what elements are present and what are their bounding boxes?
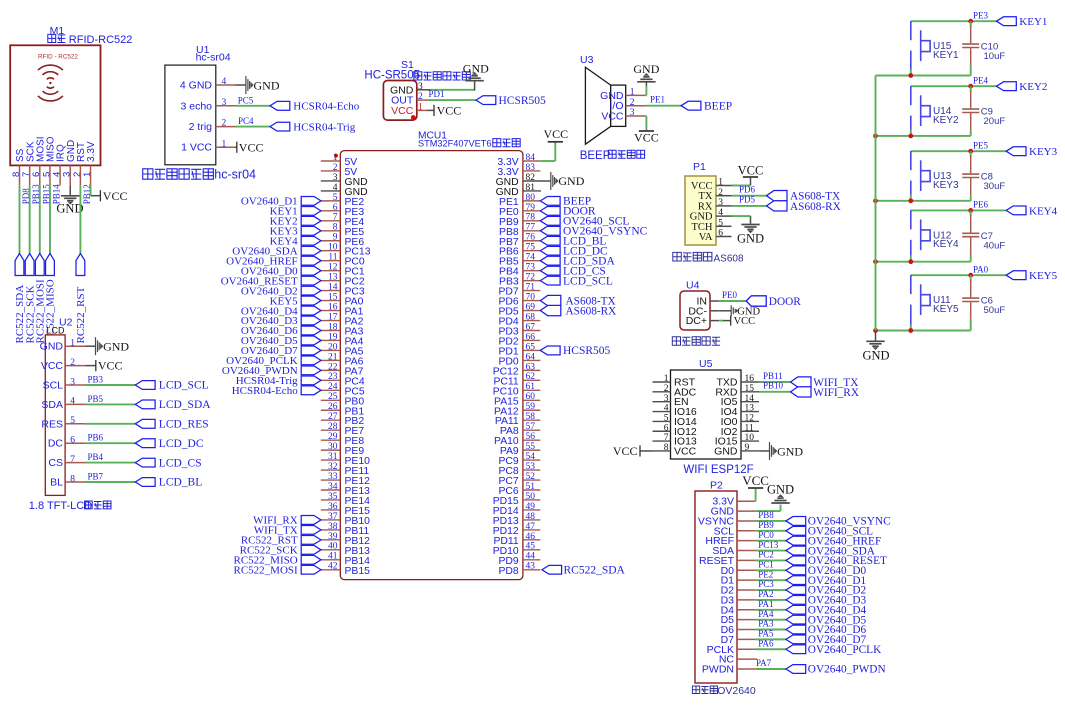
U2 caption (CJK) 1.8 TFT-LCD: [29, 500, 111, 512]
wire P2 D4 to OV2640_D4: [756, 609, 786, 611]
svg-text:GND: GND: [254, 78, 280, 92]
svg-text:8: 8: [664, 443, 669, 453]
M1 pin 3 GND: [62, 140, 77, 186]
net flag HCSR04-Trig (MCU1 pin 23): [236, 375, 321, 387]
switch U14 KEY2: [911, 86, 959, 130]
wire U4 DC- to ground: [719, 310, 731, 312]
module M1 RFID-RC522: [10, 45, 100, 165]
svg-text:3 echo: 3 echo: [180, 100, 212, 112]
net flag OV2640_D1 (MCU1 pin 5): [241, 196, 321, 208]
svg-text:PC13: PC13: [758, 540, 779, 550]
svg-text:61: 61: [526, 382, 536, 392]
junction rail KEY2: [873, 134, 878, 139]
M1 pin 6 MOSI: [31, 136, 46, 185]
net flag WIFI_TX (MCU1 pin 38): [254, 525, 321, 537]
switch U13 KEY3: [911, 151, 959, 195]
MCU1 pin 61 PC10: [493, 382, 541, 397]
net flag KEY2 (MCU1 pin 7): [270, 216, 321, 228]
svg-text:30: 30: [328, 442, 338, 452]
svg-text:RC522_MOSI: RC522_MOSI: [234, 564, 299, 576]
svg-text:55: 55: [526, 442, 536, 452]
svg-text:KEY4: KEY4: [933, 239, 959, 250]
MCU1 pin 27 PB2: [321, 412, 365, 427]
svg-text:6: 6: [664, 423, 669, 433]
wire P2 D6 to OV2640_D6: [756, 629, 786, 631]
wire U4 IN to DOOR: [719, 300, 746, 302]
net label PA0: [973, 265, 989, 275]
wire U2 DC to LCD_DC: [86, 442, 136, 444]
svg-text:30uF: 30uF: [984, 181, 1006, 192]
switch U15 KEY1: [911, 21, 959, 70]
U5 pin 5 IO14: [653, 414, 697, 428]
net label PE3: [973, 11, 989, 21]
MCU1 pin 32 PE11: [321, 462, 370, 477]
svg-text:64: 64: [526, 352, 536, 362]
M1 pin 1 3.3V: [82, 141, 97, 185]
MCU1 pin 44 PD9: [498, 552, 540, 567]
wire P2 HREF to OV2640_HREF: [756, 540, 786, 542]
svg-text:4 GND: 4 GND: [180, 80, 213, 92]
net flag LCD_SDA (U2): [135, 399, 211, 411]
wire P2 D2 to OV2640_D2: [756, 589, 786, 591]
MCU1 pin 76 PB7: [499, 233, 540, 248]
MCU1 pin 47 PD12: [493, 522, 541, 537]
svg-text:38: 38: [328, 522, 338, 532]
svg-text:GND: GND: [777, 444, 803, 458]
svg-text:9: 9: [333, 233, 338, 243]
junction on PE4 net: [968, 84, 973, 89]
wire P2 D0 to OV2640_D0: [756, 569, 786, 571]
net label PA1: [758, 599, 773, 609]
net flag WIFI_RX (U5): [791, 387, 860, 399]
svg-text:79: 79: [526, 203, 536, 213]
svg-text:57: 57: [526, 422, 536, 432]
U5 pin 16 TXD: [717, 374, 760, 388]
MCU1 pin 25 PB0: [321, 392, 365, 407]
svg-text:82: 82: [526, 173, 536, 183]
wire P2 RESET to OV2640_RESET: [756, 559, 786, 561]
svg-text:15: 15: [745, 384, 755, 394]
MCU1 pin 66 PD2: [498, 332, 540, 347]
svg-text:14: 14: [745, 394, 755, 404]
svg-text:84: 84: [526, 153, 536, 163]
net flag WIFI_RX (MCU1 pin 37): [253, 515, 321, 527]
svg-text:VCC: VCC: [98, 359, 123, 373]
net flag OV2640_RESET (MCU1 pin 13): [221, 275, 321, 287]
svg-text:LCD_BL: LCD_BL: [159, 477, 202, 489]
svg-text:GND: GND: [103, 340, 129, 354]
M1 inner text RFID - RC522: [38, 54, 78, 61]
net flag HCSR04-Echo (U1): [270, 101, 360, 113]
junction switch U13 bottom: [908, 198, 913, 203]
svg-text:KEY4: KEY4: [1029, 205, 1058, 217]
svg-text:59: 59: [526, 402, 536, 412]
svg-text:VCC: VCC: [674, 445, 697, 457]
svg-text:VA: VA: [699, 232, 713, 243]
svg-text:PC1: PC1: [758, 559, 774, 569]
net flag OV2640_D2 (P2): [786, 585, 867, 597]
svg-text:46: 46: [526, 532, 536, 542]
net label PC5: [238, 95, 254, 105]
MCU1 value label (CJK) STM32F407VET6: [418, 138, 520, 148]
net label PC1: [758, 559, 774, 569]
net flag OV2640_SCL (MCU1 pin 78): [540, 216, 629, 228]
U5 caption WIFI ESP12F: [683, 464, 753, 476]
svg-text:DC: DC: [48, 438, 64, 450]
wire KEY2 top net: [911, 85, 997, 87]
MCU1 pin 42 PB15: [321, 562, 370, 577]
wire P2 D1 to OV2640_D1: [756, 579, 786, 581]
wire P2 GND to ground: [756, 505, 781, 512]
power symbol VCC (P2): [742, 473, 769, 488]
MCU1 pin 46 PD11: [493, 532, 540, 547]
MCU1 pin 31 PE10: [321, 452, 370, 467]
MCU1 pin 80 PE1: [499, 193, 540, 208]
ground symbol U4: [731, 305, 760, 317]
net flag KEY4 (MCU1 pin 9): [270, 235, 321, 247]
P2 pin 1 3.3V: [712, 496, 755, 508]
svg-text:7: 7: [333, 213, 338, 223]
wire P2 3.3V to VCC: [755, 489, 757, 502]
P2 pin 8 D0: [721, 565, 756, 577]
net flag HCSR505 (MCU1 pin 65): [540, 345, 610, 357]
svg-text:GND: GND: [633, 62, 659, 76]
wire S1 OUT to HCSR505: [427, 99, 476, 101]
svg-text:1: 1: [664, 374, 669, 384]
wire P2 VSYNC to OV2640_VSYNC: [756, 520, 786, 522]
capacitor C8 30uF: [962, 151, 1005, 195]
svg-text:1 VCC: 1 VCC: [181, 142, 212, 154]
P2 pin 5 HREF: [705, 535, 755, 547]
MCU1 refdes label: [418, 130, 447, 141]
MCU1 pin 13 PC2: [321, 273, 365, 288]
M1 pin 4 IRQ: [52, 144, 67, 185]
P1 refdes label: [693, 161, 706, 173]
svg-text:28: 28: [328, 422, 338, 432]
svg-text:50: 50: [526, 492, 536, 502]
U1 refdes label: [196, 44, 210, 56]
M1 pin 2 RST: [72, 142, 87, 185]
net label PA6: [758, 638, 774, 648]
svg-text:8: 8: [70, 474, 75, 484]
junction rail KEY5: [873, 328, 878, 333]
junction switch U11 bottom: [908, 328, 913, 333]
net label PC3: [758, 579, 774, 589]
net label PA7: [756, 658, 772, 668]
net flag OV2640_D7 (MCU1 pin 20): [241, 345, 321, 357]
U4 caption (CJK) relay module: [672, 337, 720, 345]
wire M1 MOSI to RC522_MOSI: [39, 185, 41, 253]
U5 pin 11 IO2: [721, 423, 759, 437]
net flag RC522_SDA (M1): [14, 254, 26, 344]
relay module U4: [680, 291, 710, 330]
ground symbol S1: [463, 62, 489, 81]
svg-text:20uF: 20uF: [984, 116, 1006, 127]
net flag OV2640_D5 (P2): [786, 614, 867, 626]
P1 pin 2 TX: [699, 188, 732, 202]
net label PB3: [88, 374, 104, 384]
svg-text:RFID - RC522: RFID - RC522: [38, 54, 78, 61]
MCU1 pin 19 PA4: [321, 332, 364, 347]
MCU1 pin 30 PE9: [321, 442, 365, 457]
net label PB14: [51, 184, 61, 205]
svg-text:45: 45: [526, 542, 536, 552]
svg-text:PE0: PE0: [722, 290, 738, 300]
svg-text:PE2: PE2: [758, 569, 773, 579]
wire C7 bottom to rail: [876, 255, 971, 262]
wire C10 bottom to rail: [876, 65, 971, 75]
svg-text:48: 48: [526, 512, 536, 522]
U2 pin 6 DC: [48, 436, 86, 450]
svg-text:11: 11: [745, 423, 754, 433]
P2 pin 6 SDA: [712, 545, 755, 557]
svg-text:27: 27: [328, 412, 338, 422]
U2 pin 1 GND: [40, 339, 86, 353]
net label PB13: [31, 184, 41, 205]
svg-text:LCD_SCL: LCD_SCL: [159, 380, 209, 392]
svg-text:73: 73: [526, 263, 536, 273]
svg-text:PD5: PD5: [739, 195, 756, 205]
U4 pin IN: [697, 296, 720, 308]
net flag OV2640_PWDN (P2): [786, 664, 886, 676]
svg-text:LCD_SDA: LCD_SDA: [159, 399, 211, 411]
buzzer U3 BEEP: [585, 67, 625, 144]
svg-text:PA0: PA0: [973, 265, 989, 275]
U5 pin 10 IO15: [715, 433, 759, 447]
svg-text:PWDN: PWDN: [702, 663, 734, 675]
svg-text:AS608-RX: AS608-RX: [790, 201, 841, 213]
wire switch U14 bottom: [910, 130, 912, 136]
capacitor C7 40uF: [962, 210, 1005, 254]
wire U2 RES to LCD_RES: [86, 423, 136, 425]
svg-text:PE5: PE5: [973, 141, 989, 151]
M1 pin 5 MISO: [41, 136, 56, 185]
junction on PE6 net: [968, 208, 973, 213]
ground symbol U1: [246, 76, 280, 94]
wire U2 GND pin to ground: [86, 345, 96, 347]
net flag OV2640_HREF (MCU1 pin 11): [226, 255, 321, 267]
MCU1 pin 20 PA5: [321, 342, 364, 357]
wire M1 MISO to RC522_MISO: [49, 185, 51, 253]
net flag DOOR (MCU1 pin 79): [540, 206, 596, 218]
svg-text:7: 7: [70, 455, 75, 465]
svg-text:RC522_RST: RC522_RST: [75, 286, 87, 343]
net flag RC522_RST (MCU1 pin 39): [241, 535, 321, 547]
net label PE1: [650, 95, 665, 105]
svg-text:KEY1: KEY1: [1019, 16, 1047, 28]
svg-text:LCD_DC: LCD_DC: [159, 438, 204, 450]
wire P2 SDA to OV2640_SDA: [756, 550, 786, 552]
power symbol VCC (M1): [100, 189, 127, 203]
wire U3 VCC to VCC: [645, 116, 648, 130]
svg-text:HCSR04-Echo: HCSR04-Echo: [232, 385, 299, 397]
net label PC2: [758, 550, 774, 560]
net flag OV2640_PCLK (P2): [786, 644, 882, 656]
net label PA2: [758, 589, 773, 599]
net flag LCD_DC (U2): [135, 438, 204, 450]
svg-text:RFID-RC522: RFID-RC522: [69, 34, 133, 46]
net flag LCD_SCL (MCU1 pin 72): [540, 275, 613, 287]
svg-text:PB3: PB3: [88, 374, 104, 384]
wire U5 TXD to WIFI_TX: [759, 381, 790, 383]
svg-text:VCC: VCC: [738, 163, 764, 177]
svg-text:PB10: PB10: [763, 381, 784, 391]
net flag BEEP (U3): [681, 100, 732, 112]
power symbol VCC (U2): [96, 359, 123, 373]
net flag AS608-TX (P1): [767, 191, 841, 203]
net label PA4: [758, 609, 774, 619]
svg-text:PB6: PB6: [88, 433, 104, 443]
svg-text:PD6: PD6: [739, 185, 756, 195]
net flag RC522_MISO (MCU1 pin 41): [234, 555, 321, 567]
wire U2 SDA to LCD_SDA: [86, 403, 136, 405]
net flag KEY1 (MCU1 pin 6): [270, 206, 321, 218]
wire M1 3.3V to VCC: [91, 185, 101, 195]
svg-text:2: 2: [664, 384, 669, 394]
P2 pin 18 PWDN: [702, 663, 756, 675]
U5 pin 9 GND: [714, 443, 759, 457]
M1 name label (CJK) RFID-RC522: [48, 34, 133, 46]
ground symbol U5: [770, 442, 804, 460]
M1 contactless antenna symbol: [38, 65, 63, 101]
net label PB9: [758, 520, 774, 530]
S1 caption (CJK) HC-SR505: [364, 70, 470, 82]
wire KEY4 top net: [911, 209, 1006, 211]
net flag BEEP (MCU1 pin 80): [540, 196, 591, 208]
svg-text:VCC: VCC: [103, 189, 128, 203]
svg-text:hc-sr04: hc-sr04: [214, 167, 256, 181]
svg-text:69: 69: [526, 302, 536, 312]
wire switch U11 bottom: [910, 325, 912, 331]
net label PB12: [82, 184, 92, 204]
ground symbol keys: [862, 341, 889, 362]
junction switch U14 bottom: [908, 134, 913, 139]
svg-text:81: 81: [526, 183, 536, 193]
svg-text:PB15: PB15: [345, 566, 371, 577]
svg-text:8: 8: [333, 223, 338, 233]
MCU1 pin 83 3.3V: [497, 163, 540, 178]
svg-text:PD1: PD1: [429, 89, 445, 99]
svg-text:16: 16: [328, 302, 338, 312]
MCU1 pin 9 PE6: [321, 233, 365, 248]
svg-text:3: 3: [70, 377, 75, 387]
P2 pin 16 PCLK: [707, 644, 756, 656]
MCU1 pin 28 PE7: [321, 422, 365, 437]
wire U5 RXD to WIFI_RX: [759, 391, 790, 393]
MCU1 pin 10 PC13: [321, 243, 371, 258]
capacitor C6 50uF: [962, 275, 1005, 319]
U1 caption (CJK) hc-sr04: [143, 167, 256, 181]
svg-text:VCC: VCC: [634, 130, 659, 144]
svg-text:23: 23: [328, 372, 338, 382]
MCU1 pin 40 PB13: [321, 542, 370, 557]
svg-text:SDA: SDA: [41, 399, 63, 411]
MCU1 pin 52 PC7: [498, 472, 540, 487]
wire U3 GND to ground: [645, 82, 648, 96]
wire M1 SS to RC522_SDA: [19, 185, 21, 253]
svg-text:41: 41: [328, 552, 338, 562]
svg-text:13: 13: [745, 404, 755, 414]
net label PA3: [758, 619, 774, 629]
junction rail KEY3: [873, 198, 878, 203]
MCU U(MCU1) STM32F407VET6 core board: [340, 151, 523, 580]
svg-text:LCD_CS: LCD_CS: [159, 457, 202, 469]
wire P2 D3 to OV2640_D3: [756, 599, 786, 601]
svg-text:2 trig: 2 trig: [189, 121, 213, 133]
U1 pin 4 GND: [180, 77, 236, 91]
svg-text:29: 29: [328, 432, 338, 442]
U5 pin 2 ADC: [653, 384, 697, 398]
svg-text:62: 62: [526, 372, 536, 382]
net flag KEY4: [1006, 205, 1057, 217]
ground symbol MCU1 pin82: [551, 172, 585, 190]
svg-text:54: 54: [526, 452, 536, 462]
svg-text:U5: U5: [699, 358, 713, 370]
svg-text:PC0: PC0: [758, 530, 774, 540]
wire P1 VCC to VCC: [732, 178, 751, 186]
svg-text:PB4: PB4: [88, 452, 104, 462]
switch U12 KEY4: [911, 210, 959, 256]
U5 refdes label: [699, 358, 713, 370]
svg-text:31: 31: [328, 452, 338, 462]
svg-text:GND: GND: [558, 174, 584, 188]
M1 pin 7 SCK: [21, 141, 36, 185]
svg-text:VCC: VCC: [391, 105, 414, 117]
wire C6 bottom to rail: [876, 319, 971, 330]
MCU1 pin 71 PD7: [498, 283, 540, 298]
S1 pin 2 OUT: [391, 92, 427, 106]
svg-text:32: 32: [328, 462, 338, 472]
U5 pin 1 RST: [653, 374, 696, 388]
MCU1 pin 64 PD0: [498, 352, 540, 367]
net label PE2: [758, 569, 773, 579]
net flag LCD_BL (U2): [135, 477, 202, 489]
U5 pin 15 RXD: [715, 384, 759, 398]
net flag KEY2: [997, 81, 1048, 93]
svg-text:BEEP: BEEP: [704, 100, 732, 112]
net flag OV2640_D0 (P2): [786, 565, 867, 577]
wire P2 PCLK to OV2640_PCLK: [756, 648, 786, 650]
wire P1 RX to AS608-RX: [732, 205, 767, 207]
svg-text:HCSR505: HCSR505: [563, 345, 611, 357]
MCU1 pin 53 PC8: [498, 462, 540, 477]
junction switch U15 bottom: [908, 73, 913, 78]
U3 pin 3 VCC: [601, 108, 646, 122]
MCU1 pin 55 PA9: [500, 442, 540, 457]
svg-text:PE4: PE4: [973, 76, 989, 86]
net flag OV2640_D0 (MCU1 pin 12): [241, 265, 321, 277]
capacitor C9 20uF: [962, 86, 1005, 130]
svg-text:49: 49: [526, 502, 536, 512]
svg-text:BEEP: BEEP: [580, 150, 611, 162]
MCU1 pin 29 PE8: [321, 432, 365, 447]
svg-text:40uF: 40uF: [984, 240, 1006, 251]
svg-text:5: 5: [333, 193, 338, 203]
wire P2 SCL to OV2640_SCL: [756, 530, 786, 532]
MCU1 pin 34 PE13: [321, 482, 370, 497]
MCU1 pin 62 PC11: [493, 372, 540, 387]
S1 pin 3 GND: [390, 82, 430, 96]
wire P2 PWDN to OV2640_PWDN: [756, 668, 786, 670]
svg-text:12: 12: [745, 414, 755, 424]
svg-text:39: 39: [328, 532, 338, 542]
svg-text:PA3: PA3: [758, 619, 774, 629]
MCU1 pin 43 PD8: [498, 562, 540, 577]
svg-text:3: 3: [664, 394, 669, 404]
net label PB5: [88, 394, 104, 404]
MCU1 pin 78 PB9: [499, 213, 540, 228]
P2 pin 2 GND: [711, 506, 756, 518]
